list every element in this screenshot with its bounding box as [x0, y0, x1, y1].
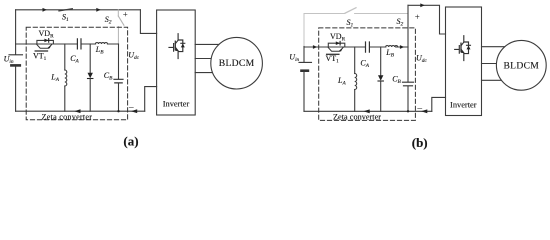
Zeta converter dashed box [26, 27, 127, 120]
svg-text:BLDCM: BLDCM [219, 58, 255, 69]
svg-text:(a): (a) [123, 134, 138, 149]
svg-text:(b): (b) [412, 135, 428, 150]
inverter box [446, 7, 482, 116]
svg-text:Uin: Uin [289, 53, 299, 64]
transistor VT1 emitter arrow [339, 47, 343, 51]
svg-text:LA: LA [337, 76, 346, 87]
motor circle BLDCM [211, 37, 263, 89]
diode VD2 wire lower [89, 79, 91, 112]
diode VD triangle [44, 39, 48, 43]
wire output node column [407, 47, 409, 82]
svg-text:LB: LB [95, 45, 104, 56]
wire battery rail upper [15, 10, 17, 54]
IGBT U1 [169, 34, 185, 59]
svg-text:–: – [417, 103, 423, 113]
capacitor CB wire lower [118, 83, 120, 111]
battery U_in long plate [299, 61, 312, 63]
svg-text:+: + [415, 12, 420, 22]
svg-text:S1: S1 [347, 18, 354, 29]
arrow current top-left [43, 8, 47, 12]
arrow current top-right [96, 8, 100, 12]
inductor LA wire lower [64, 86, 66, 111]
Zeta converter dashed box [319, 28, 416, 121]
svg-text:Inverter: Inverter [163, 100, 190, 109]
arrow return right [131, 109, 137, 113]
inductor LA coil [65, 70, 67, 86]
svg-text:Zeta converter: Zeta converter [333, 112, 381, 121]
switch S2 stub (gray, open) [117, 10, 119, 16]
diode VD cathode bar [339, 41, 341, 45]
capacitor CB wire lower [407, 86, 409, 111]
svg-text:Inverter: Inverter [450, 100, 477, 109]
arrow branch current [313, 45, 317, 49]
svg-text:Udc: Udc [416, 54, 427, 65]
wire battery rail to branch [303, 47, 305, 63]
capacitor CB plates [403, 82, 414, 86]
motor circle BLDCM [496, 40, 546, 90]
inductor LB coil [386, 46, 398, 48]
wire step down to inverter [140, 10, 156, 34]
wire bottom rail [304, 110, 432, 112]
svg-text:Uin: Uin [4, 55, 14, 66]
arrow after LB [400, 45, 404, 49]
svg-text:VT1: VT1 [33, 51, 47, 62]
capacitor CA plates [77, 39, 81, 49]
svg-text:VT1: VT1 [326, 54, 340, 65]
svg-text:LB: LB [385, 48, 394, 59]
diode VD2 wire upper [89, 44, 91, 73]
wire return step to inverter [145, 87, 157, 112]
svg-text:CB: CB [392, 74, 401, 85]
inductor LA wire upper [64, 44, 66, 70]
wire return step to inverter [432, 97, 446, 111]
wire battery rail lower [15, 67, 17, 112]
svg-text:+: + [123, 9, 128, 19]
transistor VT1 gate bar [35, 50, 47, 52]
diode VD loop [328, 43, 345, 47]
wire bottom rail [16, 110, 145, 112]
transistor VT1 body [328, 47, 344, 51]
inductor LA coil [355, 74, 357, 90]
switch S2 blade (gray, open) [118, 16, 124, 25]
wire S2 to output node (gray) [117, 27, 119, 44]
svg-text:–: – [128, 102, 134, 112]
junction node dot [407, 110, 409, 112]
arrow return mid [74, 109, 80, 113]
diode VD2 triangle [378, 75, 383, 80]
diode VD cathode bar [48, 39, 50, 43]
svg-text:LA: LA [50, 73, 59, 84]
transistor VT1 emitter arrow [48, 44, 52, 48]
wire phase lines [482, 47, 511, 81]
wire main branch [16, 43, 119, 45]
battery U_in short plate [302, 69, 308, 72]
svg-text:S1: S1 [62, 13, 69, 24]
wire top bus gray (inactive) [304, 14, 408, 47]
wire top feed to inverter [408, 5, 446, 34]
diode VD loop [37, 40, 54, 44]
diode VD2 triangle [88, 73, 93, 78]
capacitor CA plates [366, 42, 370, 52]
IGBT U2 [455, 36, 471, 61]
diode VD2 wire lower [380, 81, 382, 111]
inductor LB coil [96, 43, 108, 45]
wire main branch [304, 46, 408, 48]
switch S1 blade (closed) [59, 9, 72, 11]
arrow current top feed [420, 3, 424, 7]
svg-text:S2: S2 [397, 17, 404, 28]
svg-text:CA: CA [70, 54, 79, 65]
svg-text:CA: CA [360, 59, 369, 70]
battery U_in long plate [9, 54, 23, 56]
svg-text:VDR: VDR [330, 32, 346, 43]
svg-text:Udc: Udc [128, 51, 139, 62]
svg-text:Zeta converter: Zeta converter [42, 113, 93, 122]
diode VD triangle [336, 41, 340, 45]
svg-text:BLDCM: BLDCM [503, 60, 539, 71]
svg-text:VDR: VDR [39, 29, 55, 40]
switch S2 column (closed) [407, 5, 409, 47]
inverter box [157, 10, 196, 115]
inductor LA wire upper [354, 47, 356, 74]
battery U_in short plate [11, 64, 19, 67]
wire top bus (battery+ to step) [16, 9, 141, 11]
arrow return mid [363, 109, 369, 113]
wire battery rail lower [303, 72, 305, 111]
svg-text:S2: S2 [105, 15, 112, 26]
diode VD2 cathode bar [378, 80, 383, 82]
transistor VT1 body [37, 44, 53, 48]
diode VD2 wire upper [380, 47, 382, 75]
inductor LA wire lower [354, 90, 356, 112]
arrow return right [421, 109, 427, 113]
wire output node column [118, 44, 120, 79]
diode VD2 cathode bar [88, 78, 93, 80]
svg-text:CB: CB [104, 71, 113, 82]
transistor VT1 gate bar [327, 53, 339, 55]
capacitor CB plates [114, 79, 123, 83]
junction node dot [117, 110, 119, 112]
switch S1 blade (gray, open) [345, 8, 356, 13]
wire phase lines [195, 44, 225, 72]
